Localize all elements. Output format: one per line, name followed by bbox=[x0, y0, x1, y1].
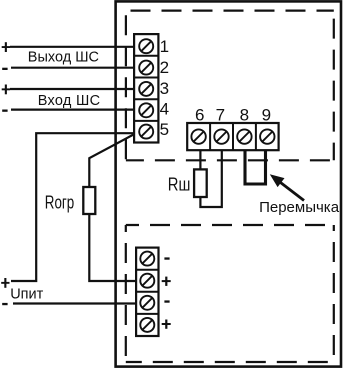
svg-text:Вход ШС: Вход ШС bbox=[38, 93, 101, 109]
upper dashed section border bbox=[126, 11, 334, 161]
wire -ШС in to terminal 4 bbox=[11, 108, 140, 110]
screw terminal power + (2) bbox=[140, 318, 154, 332]
wire terminal 6 to Rш bbox=[199, 150, 201, 170]
wire terminal 5 to +Uпит bbox=[11, 133, 140, 281]
label + (power terminal 2) bbox=[162, 277, 171, 286]
terminal block 6-9 bbox=[187, 123, 278, 150]
wire +ШС in to terminal 3 bbox=[10, 88, 140, 90]
jumper arrow bbox=[281, 183, 305, 201]
screw terminal 6 bbox=[191, 129, 205, 143]
svg-text:1: 1 bbox=[160, 37, 169, 56]
screw terminal 7 bbox=[214, 129, 228, 143]
svg-text:7: 7 bbox=[216, 105, 225, 124]
label -Uпит bbox=[2, 303, 7, 305]
svg-text:Rш: Rш bbox=[168, 174, 191, 194]
label - (power terminal 1) bbox=[164, 257, 169, 259]
svg-text:Uпит: Uпит bbox=[10, 287, 43, 303]
svg-text:Перемычка: Перемычка bbox=[259, 199, 340, 216]
svg-text:5: 5 bbox=[160, 120, 169, 139]
wire Rш to terminal 7 bbox=[200, 150, 221, 207]
label + (power terminal 4) bbox=[162, 320, 171, 329]
device outline (solid box) bbox=[116, 1, 341, 366]
screw terminal power - bbox=[140, 252, 154, 266]
resistor Rогр bbox=[83, 187, 95, 214]
label +Uпит bbox=[1, 278, 9, 288]
screw terminal 4 bbox=[139, 103, 153, 117]
label -ШС out bbox=[2, 68, 7, 70]
wire +ШС out to terminal 1 bbox=[10, 46, 140, 48]
label +ШС in bbox=[2, 85, 10, 95]
svg-text:6: 6 bbox=[195, 105, 204, 124]
wire -ШС out to terminal 2 bbox=[11, 67, 140, 69]
wire terminal 5 to Rогр (diagonal) bbox=[89, 134, 134, 188]
screw terminal 5 bbox=[139, 125, 153, 139]
wire -Uпит to lower - terminal bbox=[13, 302, 141, 304]
svg-text:8: 8 bbox=[240, 105, 249, 124]
screw terminal 8 bbox=[237, 129, 251, 143]
label +ШС out bbox=[2, 42, 10, 52]
svg-text:Rогр: Rогр bbox=[45, 192, 74, 212]
wire Rогр to lower + terminal bbox=[89, 214, 141, 281]
screw terminal 3 bbox=[139, 82, 153, 96]
label -ШС in bbox=[2, 110, 7, 112]
screw terminal power + bbox=[140, 274, 154, 288]
screw terminal power - (2) bbox=[140, 296, 154, 310]
svg-text:Выход ШС: Выход ШС bbox=[28, 50, 99, 66]
svg-text:3: 3 bbox=[160, 79, 169, 98]
jumper between terminals 8 and 9 bbox=[245, 150, 266, 184]
terminal block 1-5 bbox=[134, 34, 158, 142]
screw terminal 9 bbox=[260, 129, 274, 143]
svg-text:9: 9 bbox=[262, 105, 271, 124]
resistor Rш bbox=[194, 169, 207, 197]
label - (power terminal 3) bbox=[164, 300, 169, 302]
screw terminal 1 bbox=[139, 39, 153, 53]
lower dashed section border bbox=[126, 225, 334, 362]
terminal block power (lower) bbox=[136, 248, 158, 336]
svg-text:2: 2 bbox=[160, 58, 169, 77]
screw terminal 2 bbox=[139, 61, 153, 75]
svg-text:4: 4 bbox=[160, 99, 169, 118]
